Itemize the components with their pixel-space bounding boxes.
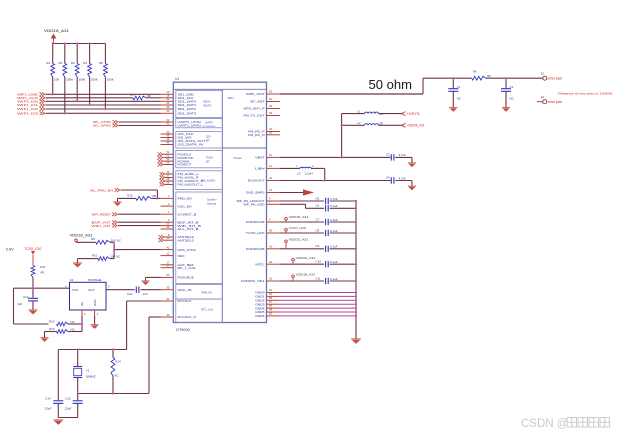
svg-text:ALL_INT_B: ALL_INT_B [178,227,199,231]
svg-text:2.2uH: 2.2uH [305,172,313,176]
inductor L1 [342,113,365,115]
svg-text:VDD18_A31: VDD18_A31 [296,272,316,276]
svg-text:42: 42 [269,176,273,180]
svg-text:100K: 100K [91,78,98,82]
svg-text:22pF: 22pF [45,407,52,411]
svg-text:TCXO_LDO: TCXO_LDO [289,226,307,230]
svg-text:C7: C7 [316,217,320,221]
svg-text:C8: C8 [316,228,320,232]
wire WIFI_RESET [118,213,161,215]
pin stub C9 row [267,248,281,250]
resistor R15 [136,197,151,201]
pin stub C5 row [267,200,281,202]
wire RTCCLK_O [149,316,161,318]
svg-text:R4: R4 [83,61,87,65]
pin stub WIFI_D0 [161,100,174,102]
svg-text:0.1uF: 0.1uF [330,229,338,233]
U1 inner block [176,150,223,167]
pin stub WIFI_CMD [161,93,174,95]
svg-text:U1: U1 [175,77,179,81]
wire GND2 to bus [278,299,356,301]
pin stub WL_UTXD [161,121,174,123]
svg-text:+VSYS: +VSYS [407,112,421,116]
pin stub I2S [161,140,174,142]
pin stub WL_URXD [161,125,174,127]
pin stub RF [267,115,281,117]
U1 inner block [176,91,223,118]
wire GND_SMPS [280,192,304,194]
wire C7 to bus [330,221,357,223]
svg-text:WF_PA_VDD: WF_PA_VDD [244,203,265,207]
wire GND5 to bus [278,311,356,313]
svg-text:LIBH: LIBH [255,167,264,171]
pin stub ANTSEL3 no-connect [159,238,164,242]
svg-text:NC: NC [510,97,514,101]
ground at R13 [44,332,46,338]
svg-text:NC: NC [71,327,75,331]
U1 inner block [176,118,223,127]
wire crystal caps bottom [58,417,77,419]
svg-text:BT_ANT: BT_ANT [251,100,265,104]
ground at C2 [502,108,510,112]
svg-text:PMU_EN: PMU_EN [178,197,192,201]
ground at C4 [408,186,416,190]
wire TCXO_LDO to R11 [32,255,34,266]
wire LIBH [280,167,300,169]
resistor R6 [472,76,486,80]
svg-text:43: 43 [166,140,170,144]
wire L1 to VSYS [379,113,402,115]
power flag TCXO_LDO down arrow [31,251,35,255]
svg-text:15: 15 [269,277,273,281]
pin stub GND6 [267,315,279,317]
pin stub GND3 [267,303,279,305]
svg-text:12: 12 [166,251,170,255]
wire U2 pin2 down [81,316,83,332]
pin stub GND_SMPS [267,192,281,194]
junction dots [52,42,54,44]
svg-text:NC: NC [80,302,84,306]
svg-text:GPS_SYNC: GPS_SYNC [178,248,197,252]
wire crystal top bus [58,349,127,351]
pin stub OSC_EN [161,205,174,207]
resistor R11 [31,266,35,278]
wire R15 to PMU_EN pin [151,197,160,199]
wire GND3 to bus [278,303,356,305]
U1 inner block [176,299,223,322]
wire L3 to BUCKOUT [311,167,325,169]
svg-text:R15: R15 [127,194,133,198]
svg-text:Distance of two pins is 150MIL: Distance of two pins is 150MIL [558,91,614,95]
pin stub ANTSEL2 no-connect [159,235,164,239]
resistor R7 series on WIFI_CLK [133,96,146,100]
wire GND0 to bus [278,292,356,294]
pin stub GND0 [267,292,279,294]
svg-text:Power: Power [234,156,243,160]
svg-text:FM_AUDIO: FM_AUDIO [202,179,216,183]
svg-text:UART1_URXD: UART1_URXD [178,124,201,128]
pin stub FM audio no-connect [160,172,165,176]
pin stub GND1 [267,295,279,297]
svg-text:1nF: 1nF [143,292,148,296]
pin stub SDO [161,255,174,257]
capacitor C11 [326,278,329,284]
ground at U2 [91,325,99,329]
svg-text:0.1uF: 0.1uF [330,277,338,281]
svg-text:29: 29 [269,111,273,115]
svg-text:14: 14 [269,153,273,157]
svg-text:0R: 0R [379,121,383,125]
svg-text:PCMOUT: PCMOUT [178,163,192,167]
wire WIFI_D1 [46,104,161,106]
svg-text:33: 33 [166,313,170,317]
svg-text:24: 24 [166,109,170,113]
svg-text:BUCKOUT: BUCKOUT [248,179,265,183]
svg-text:GND6: GND6 [255,314,265,318]
svg-text:U2: U2 [70,278,74,282]
svg-text:100K: 100K [79,78,86,82]
svg-text:OSC_EN: OSC_EN [178,204,192,208]
pin stub PCM no-connect [158,152,163,156]
resistor R12 [57,322,68,326]
svg-text:VRTC: VRTC [255,262,264,266]
wire C3 to ground [395,156,412,158]
svg-text:R10: R10 [92,253,98,257]
svg-text:GT9000: GT9000 [176,328,190,332]
svg-text:4.7uF: 4.7uF [399,153,407,157]
power flag GND_SMPS arrow [303,189,314,195]
pin stub WIFI_CLK [161,97,174,99]
wire supply branch vertical [341,114,343,158]
U1 inner block [176,171,223,190]
pin stub WIFI_INT [161,225,174,227]
svg-text:R2: R2 [59,61,63,65]
capacitor C8 [326,230,329,236]
resistor R5 [104,44,106,64]
svg-text:34: 34 [166,297,170,301]
svg-text:0R: 0R [487,74,491,78]
svg-text:ANTSEL3: ANTSEL3 [178,238,195,242]
wire C5 to bus [330,200,357,202]
pin stub RF [267,134,281,136]
svg-text:36: 36 [269,229,273,233]
svg-text:C2: C2 [510,85,514,89]
pin stub WIFI_ANT [267,93,281,95]
resistor R3 [76,44,78,64]
svg-text:25: 25 [166,180,170,184]
svg-text:IT200SHE: IT200SHE [88,278,102,282]
pin stub PCM no-connect [158,163,163,167]
pin stub GND2 [267,299,279,301]
svg-text:VDD33_A31: VDD33_A31 [70,234,93,238]
wire BGF_INT [118,221,161,223]
svg-text:32: 32 [269,260,273,264]
svg-text:R9: R9 [91,237,95,241]
capacitor C15 [77,394,79,401]
svg-text:C5: C5 [316,196,320,200]
svg-text:30: 30 [269,130,273,134]
wire GPS_SYNC [114,249,160,251]
svg-text:4.7uF: 4.7uF [399,176,407,180]
svg-text:4.7uF: 4.7uF [330,197,338,201]
wire GND6 to bus [278,315,356,317]
svg-text:FSOURCE: FSOURCE [178,276,194,280]
pin stub RF [267,131,281,133]
wire WIFI_INT [118,225,161,227]
capacitor C5 [326,198,329,204]
svg-text:BT: BT [206,139,210,143]
svg-text:C14: C14 [45,397,51,401]
svg-text:WIFI_ANT: WIFI_ANT [246,92,265,96]
capacitor C1 [452,78,454,88]
pin stub WIFI_RESET [161,213,174,215]
svg-text:42: 42 [166,245,170,249]
svg-text:C1: C1 [457,85,461,89]
svg-text:RTCCLK: RTCCLK [178,299,192,303]
wire to C7 [280,221,324,223]
U1 inner block [176,192,223,284]
wire C10 to bus [330,263,357,265]
svg-text:WIFI_RESET: WIFI_RESET [92,212,111,216]
svg-text:R1: R1 [46,61,50,65]
svg-text:+VDD08_A31: +VDD08_A31 [407,124,425,128]
svg-text:R5: R5 [99,61,103,65]
ground at crystal [53,420,63,425]
svg-text:37: 37 [166,264,170,268]
svg-text:0.1uF: 0.1uF [330,260,338,264]
svg-text:C11: C11 [316,276,321,280]
wire WL_UTXD [119,121,161,123]
svg-text:0.1uF: 0.1uF [330,245,338,249]
wire R10 right to GPS_SYNC node [110,258,115,260]
ground at bus [351,339,361,344]
svg-text:C10: C10 [316,260,322,264]
svg-text:TCXO_LDO: TCXO_LDO [246,231,265,235]
capacitor C9 [326,246,329,252]
svg-text:SYSRST_B: SYSRST_B [178,212,197,216]
wire to C9 [280,248,324,250]
svg-text:10: 10 [166,236,170,240]
svg-text:VBAT: VBAT [255,156,265,160]
capacitor C14 [57,350,59,401]
svg-text:C6: C6 [316,204,320,208]
wire RTCCLK to crystal [127,300,161,302]
svg-text:54: 54 [166,273,170,277]
svg-text:C12: C12 [127,292,133,296]
wire VDD33 to R9 [76,241,96,243]
svg-text:0.1uF: 0.1uF [330,204,338,208]
pin stub I2S [161,144,174,146]
wire WIFI_ANT [280,93,423,95]
svg-text:13: 13 [269,188,273,192]
wire VCC loop down [13,288,15,324]
svg-text:FM_RX_N: FM_RX_N [248,133,264,137]
pin stub RF [267,101,281,103]
wire WL_URXD [119,125,161,127]
svg-text:SD1_DAT3: SD1_DAT3 [178,112,197,116]
pin stub WIFI_D3 [161,112,174,114]
wire VDD18 bus [54,43,106,45]
pin stub GND5 [267,311,279,313]
wire WIFI_D2 [46,108,161,110]
wire to C5 [280,200,324,202]
svg-text:RTC_CLK: RTC_CLK [201,308,213,312]
pin stub FM audio no-connect [160,179,165,183]
wire R12 to U2 pin2 [68,323,82,325]
svg-text:GND: GND [93,300,97,306]
svg-text:11: 11 [269,164,272,168]
wire GND1 to bus [278,295,356,297]
svg-text:R7: R7 [131,93,135,97]
ground at C13 [28,310,37,314]
svg-text:L1: L1 [357,109,361,113]
pin stub BUCKOUT [267,180,281,182]
svg-text:BT/GNSS/FM: BT/GNSS/FM [203,126,216,128]
svg-text:L2: L2 [357,121,361,125]
svg-text:DVDDIO_SD1: DVDDIO_SD1 [241,279,265,283]
svg-text:WIFI_D3: WIFI_D3 [17,112,39,116]
svg-text:GND_SMPS: GND_SMPS [246,191,265,195]
capacitor C2 [505,78,507,88]
svg-text:UART: UART [205,120,213,124]
svg-text:SDO: SDO [178,254,186,258]
pin stub C6 row [267,203,281,205]
capacitor C13 [32,288,34,298]
svg-text:0R: 0R [40,270,44,274]
resistor R1 [52,44,54,64]
pin stub GND4 [267,307,279,309]
resistor R14 [112,350,114,358]
pin stub PCM no-connect [158,156,163,160]
svg-text:30: 30 [166,225,170,229]
svg-text:Y1: Y1 [86,368,90,372]
U1 inner function labels [201,96,242,312]
svg-text:C9: C9 [316,244,320,248]
svg-text:R14: R14 [115,360,121,364]
svg-text:smd pad: smd pad [548,77,562,81]
wire to C10 [280,263,324,265]
svg-text:Setting: Setting [207,202,216,206]
capacitor C7 [326,219,329,225]
wire crystal bottom bus [78,393,149,395]
svg-text:DVDDIO18: DVDDIO18 [246,220,265,224]
wire to C11 [280,280,324,282]
svg-text:C4: C4 [386,176,390,180]
svg-text:RTCCLK_O: RTCCLK_O [178,315,198,319]
svg-text:VCC: VCC [72,288,79,292]
inductor L2 [342,124,365,126]
svg-text:VDD18_A31: VDD18_A31 [289,215,309,219]
wire L2 to VDD08 [379,124,402,126]
svg-text:22pF: 22pF [65,407,72,411]
U1 right pin names [237,92,266,318]
wire WIFI_CMD [46,93,161,95]
crystal Y1 [77,350,79,367]
wire C9 to bus [330,248,357,250]
svg-text:R12: R12 [49,319,55,323]
svg-text:FM_TX_OUT: FM_TX_OUT [244,114,265,118]
pin stub I2S [161,137,174,139]
svg-text:35: 35 [166,286,170,290]
wire WIFI_D3 [46,112,161,114]
wire R15 left to ground [118,197,136,199]
wire U2 OUT to C12 [106,289,135,291]
svg-text:26MHZ: 26MHZ [86,374,96,378]
wire GND4 to bus [278,307,356,309]
svg-text:DVDDIO28: DVDDIO28 [246,247,265,251]
pin stub FM audio no-connect [160,183,165,187]
svg-text:MCP1: MCP1 [203,104,212,108]
svg-text:61: 61 [269,97,273,101]
capacitor C6 [326,205,329,211]
svg-text:10K: 10K [54,78,59,82]
pin stub ALL_INT_B [161,228,174,230]
svg-text:55: 55 [166,160,170,164]
svg-text:L3: L3 [297,172,301,176]
wire R13 [45,331,57,333]
svg-text:FM_AUDOUT_L: FM_AUDOUT_L [178,183,204,187]
svg-text:OSC_IN: OSC_IN [178,288,192,292]
wire C6 to bus [330,207,357,209]
pin stub PCM no-connect [158,159,163,163]
pin stub WIFI_D2 [161,108,174,110]
U1 left pin names [178,93,206,320]
wire VBAT [280,156,391,158]
svg-text:RF_I_CAL: RF_I_CAL [178,266,197,270]
svg-text:0R: 0R [152,194,156,198]
svg-text:C15: C15 [65,397,71,401]
svg-text:R6: R6 [473,70,477,74]
svg-text:VDD33_A31: VDD33_A31 [289,238,309,242]
wire VCC rail [14,287,70,289]
svg-text:VDD33_A31: VDD33_A31 [296,256,316,260]
pin stub C10 row [267,263,281,265]
svg-text:63: 63 [269,90,273,94]
wire FSOURCE [146,276,161,278]
pin stub U2 pin3 [94,310,96,316]
pin stub C11 row [267,280,281,282]
wire jog to C6 [280,203,306,205]
wire BUCKOUT [280,180,391,182]
U1 inner block [176,285,223,300]
pin stub WIFI_D1 [161,104,174,106]
ground at C3 [408,163,416,167]
svg-text:31: 31 [166,121,170,125]
svg-text:I2S_DATA_IN: I2S_DATA_IN [178,143,204,147]
pin stub BGF_INT [161,221,174,223]
svg-text:41: 41 [269,244,273,248]
resistor R4 [89,44,91,64]
svg-text:C13: C13 [23,295,29,299]
wire to C8 [280,232,324,234]
wire WIFI_D0 [46,100,161,102]
svg-text:1uF: 1uF [17,302,22,306]
capacitor C4 [391,177,394,183]
resistor R2 [64,44,66,64]
wire U2 gnd pin [94,316,96,324]
resistor R13 [57,330,68,334]
svg-text:0R: 0R [147,94,151,98]
U1 inner block [176,132,223,148]
svg-text:NC: NC [71,320,75,324]
pin stub U2 pin2 [81,310,83,316]
pin stub RF [267,108,281,110]
svg-text:50: 50 [269,312,273,316]
wire R9 to GPS_SYNC [110,241,114,243]
pin stub FM audio no-connect [160,176,165,180]
svg-text:smd pad: smd pad [548,100,562,104]
pin stub I2S [161,133,174,135]
